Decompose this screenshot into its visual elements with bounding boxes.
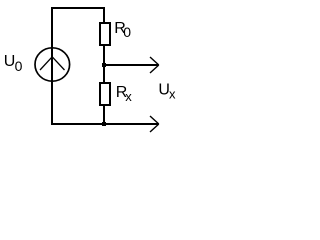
wire left: [51, 7, 53, 125]
node junction upper: [102, 63, 106, 67]
arrow lower (voltage arrow at bottom wire): [150, 116, 159, 132]
svg-text:0: 0: [123, 24, 131, 40]
svg-text:x: x: [125, 89, 132, 104]
resistor Rx: [100, 83, 110, 105]
voltage source U0 (circle with up arrow): [35, 47, 70, 82]
label R0: [114, 20, 131, 40]
svg-text:x: x: [169, 87, 176, 102]
node junction lower: [102, 122, 106, 126]
svg-text:0: 0: [15, 58, 23, 74]
label Ux: [158, 82, 176, 102]
arrow upper (voltage arrow at node): [104, 57, 159, 73]
wire top: [51, 7, 105, 9]
wire bottom: [51, 123, 158, 125]
resistor R0: [100, 23, 110, 45]
label U0: [4, 53, 23, 74]
wire right branch: [103, 7, 105, 123]
label Rx: [116, 84, 133, 104]
